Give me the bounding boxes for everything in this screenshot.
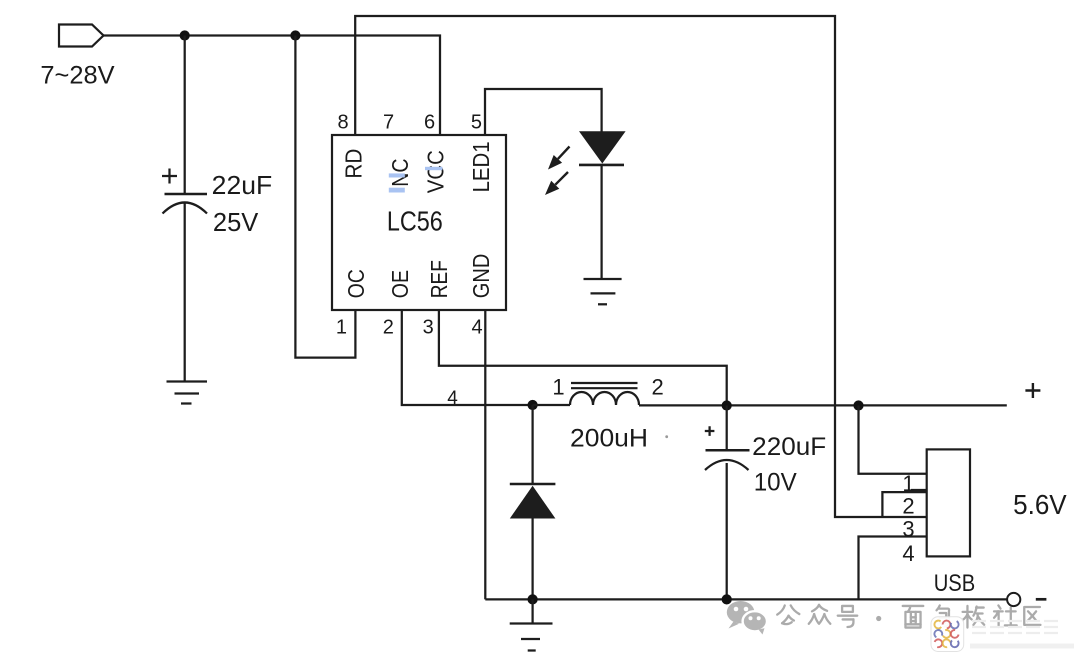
blue mark on NC [389, 173, 405, 177]
wire USB pin1 to output [859, 406, 927, 474]
svg-text:6: 6 [424, 112, 435, 134]
node D2 anode/ground rail [528, 594, 538, 604]
svg-text:220uF: 220uF [752, 433, 826, 461]
svg-text:7: 7 [383, 112, 394, 134]
svg-text:LED1: LED1 [468, 141, 494, 192]
svg-text:REF: REF [426, 260, 452, 298]
svg-text:7~28V: 7~28V [40, 61, 114, 89]
watermark wechat icon [727, 601, 767, 635]
svg-text:1: 1 [552, 374, 564, 399]
svg-text:1: 1 [902, 471, 914, 496]
wire ground rail [485, 598, 1007, 600]
capacitor C1 22uF 25V [162, 169, 207, 214]
node C2 bottom/ground rail [722, 594, 732, 604]
svg-text:5: 5 [471, 112, 482, 134]
usb pin1 stub line [911, 489, 927, 491]
svg-text:4: 4 [447, 388, 458, 409]
usb connector J2 body [927, 449, 970, 556]
photodiode D1 [579, 131, 626, 165]
watermark faint site text [970, 621, 1074, 646]
blue mark on VCC [425, 167, 442, 170]
wire OC pin1 to input rail [295, 36, 355, 358]
wire C1 top lead [184, 36, 186, 195]
svg-text:RD: RD [341, 149, 367, 179]
node output/USB pin1 [853, 400, 863, 410]
usb pin2 box [882, 492, 926, 517]
svg-text:2: 2 [383, 317, 394, 339]
wire LED1 pin5 to photodiode D1 [485, 89, 602, 135]
terminal - output open circle [1007, 593, 1020, 606]
minus sign [1036, 598, 1047, 601]
wire OE pin2 to switch node [402, 310, 531, 405]
svg-text:200uH: 200uH [570, 425, 648, 453]
svg-text:4: 4 [902, 541, 914, 566]
wire REF pin3 to output node [439, 310, 727, 406]
svg-text:8: 8 [337, 112, 348, 134]
svg-text:OC: OC [343, 269, 369, 298]
svg-text:VCC: VCC [423, 150, 449, 193]
connector J1 input plug [59, 25, 104, 47]
svg-text:22uF: 22uF [212, 170, 273, 200]
wire D1 cathode to ground [600, 165, 602, 279]
svg-text:4: 4 [472, 317, 483, 339]
svg-text:LC56: LC56 [387, 205, 443, 236]
svg-text:USB: USB [934, 570, 976, 597]
svg-text:3: 3 [902, 516, 914, 541]
svg-text:10V: 10V [754, 469, 797, 497]
svg-text:2: 2 [651, 374, 663, 399]
node output/C2 [722, 400, 732, 410]
svg-text:2: 2 [902, 494, 914, 519]
wire USB pin3 to ground rail [859, 537, 927, 600]
node switch junction [528, 400, 538, 410]
node junction input/C1 [180, 30, 190, 40]
op-amp U1 LC56 body [332, 135, 506, 310]
svg-text:1: 1 [336, 317, 347, 339]
svg-text:OE: OE [387, 270, 413, 298]
svg-text:5.6V: 5.6V [1013, 489, 1067, 520]
light arrows into D1 [545, 147, 570, 196]
node junction input/OC [290, 30, 300, 40]
watermark text gongzhonghao mianbaoban shequ [777, 605, 1040, 628]
inductor L1 200uH [533, 383, 639, 405]
wire input rail to VCC pin 6 [104, 36, 441, 136]
watermark mbb logo [931, 617, 964, 652]
terminal + output [1025, 383, 1040, 398]
svg-text:3: 3 [423, 317, 434, 339]
speck [665, 435, 668, 438]
svg-text:GND: GND [468, 254, 494, 299]
svg-text:NC: NC [387, 158, 413, 186]
capacitor C2 220uF 10V [705, 406, 750, 600]
wire RD pin8 to USB pin2 (top rail) [355, 16, 927, 517]
ground under D2 [510, 599, 553, 650]
wire GND pin4 down [484, 310, 486, 599]
wire output rail [639, 404, 1007, 406]
diode D2 [510, 405, 556, 599]
wire C1 bottom lead [184, 204, 186, 382]
svg-text:25V: 25V [213, 207, 259, 237]
ground under D1 [584, 279, 622, 304]
ground under C1 [167, 382, 208, 404]
